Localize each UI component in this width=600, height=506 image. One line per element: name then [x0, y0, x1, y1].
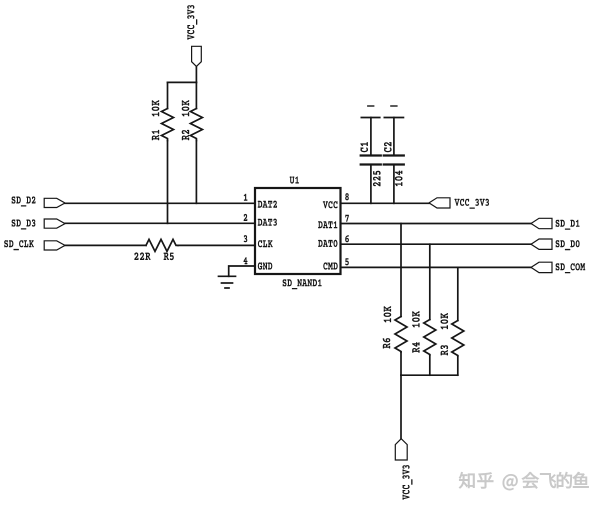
net label SD_D2	[12, 196, 65, 207]
wire R5 to CLK pin	[178, 244, 255, 246]
ground	[219, 276, 236, 288]
pin number 4	[244, 257, 248, 264]
pin number 3	[244, 235, 248, 242]
pin number 8	[345, 193, 349, 200]
wire net DAT2	[65, 202, 255, 204]
wire R4 top lead from DAT0	[429, 244, 431, 319]
capacitor C1	[360, 106, 381, 203]
value 10K of R3	[440, 313, 448, 329]
wire bottom bus junction	[401, 374, 458, 376]
wire net DAT3	[65, 222, 255, 224]
resistor R5	[146, 239, 178, 260]
wire junction to R1 branch	[168, 81, 197, 83]
pin number 1	[244, 194, 248, 201]
value 22R of R5	[134, 252, 150, 260]
wire R4 bottom lead	[429, 355, 431, 375]
capacitor C2	[384, 106, 404, 203]
wire SD_CLK to R5	[65, 244, 146, 246]
wire CMD pin 5 net	[341, 266, 532, 268]
wire R3 top lead from CMD	[457, 267, 459, 320]
resistor R1	[152, 109, 174, 141]
wire to bottom power tag	[400, 375, 402, 439]
resistor R2	[182, 109, 203, 141]
resistor R3	[441, 321, 464, 357]
wire R6 top lead from DAT1	[400, 224, 402, 317]
watermark	[459, 472, 588, 490]
net label SD_D3	[12, 219, 65, 230]
power symbol VCC_3V3 (bottom)	[395, 439, 412, 500]
pin number 6	[345, 235, 349, 242]
power symbol VCC_3V3 (right)	[429, 198, 489, 209]
wire R6 bottom lead	[400, 352, 402, 375]
net label SD_CLK	[4, 240, 65, 250]
pin number 2	[244, 214, 248, 221]
wire VCC pin 8 net	[341, 202, 430, 204]
value 10K of R1	[152, 100, 160, 116]
wire GND pin 4 stub	[229, 266, 255, 276]
wire R2 top lead	[195, 82, 197, 108]
wire R2 bottom to DAT2 net	[195, 141, 197, 204]
value 10K of R4	[412, 311, 420, 327]
wire R3 bottom lead	[457, 356, 459, 375]
pin number 7	[345, 215, 349, 222]
wire from top power tag	[195, 66, 197, 82]
resistor R4	[412, 320, 436, 356]
resistor R6	[383, 317, 407, 353]
value 10K of R2	[182, 100, 190, 116]
value 10K of R6	[384, 306, 392, 322]
value 225 of C1	[373, 171, 381, 187]
wire R1 bottom to DAT3 net	[167, 141, 169, 224]
pin number 5	[345, 258, 349, 265]
net label SD_D1	[531, 218, 580, 230]
wire DAT0 pin 6 net	[341, 243, 532, 245]
net label SD_D0	[531, 239, 580, 250]
net label SD_COM	[531, 262, 585, 273]
value 104 of C2	[395, 171, 403, 187]
wire R1 top lead	[167, 82, 169, 108]
power symbol VCC_3V3 (top)	[187, 5, 201, 66]
wire DAT1 pin 7 net	[341, 223, 532, 225]
IC U1 SD_NAND1	[255, 176, 341, 289]
